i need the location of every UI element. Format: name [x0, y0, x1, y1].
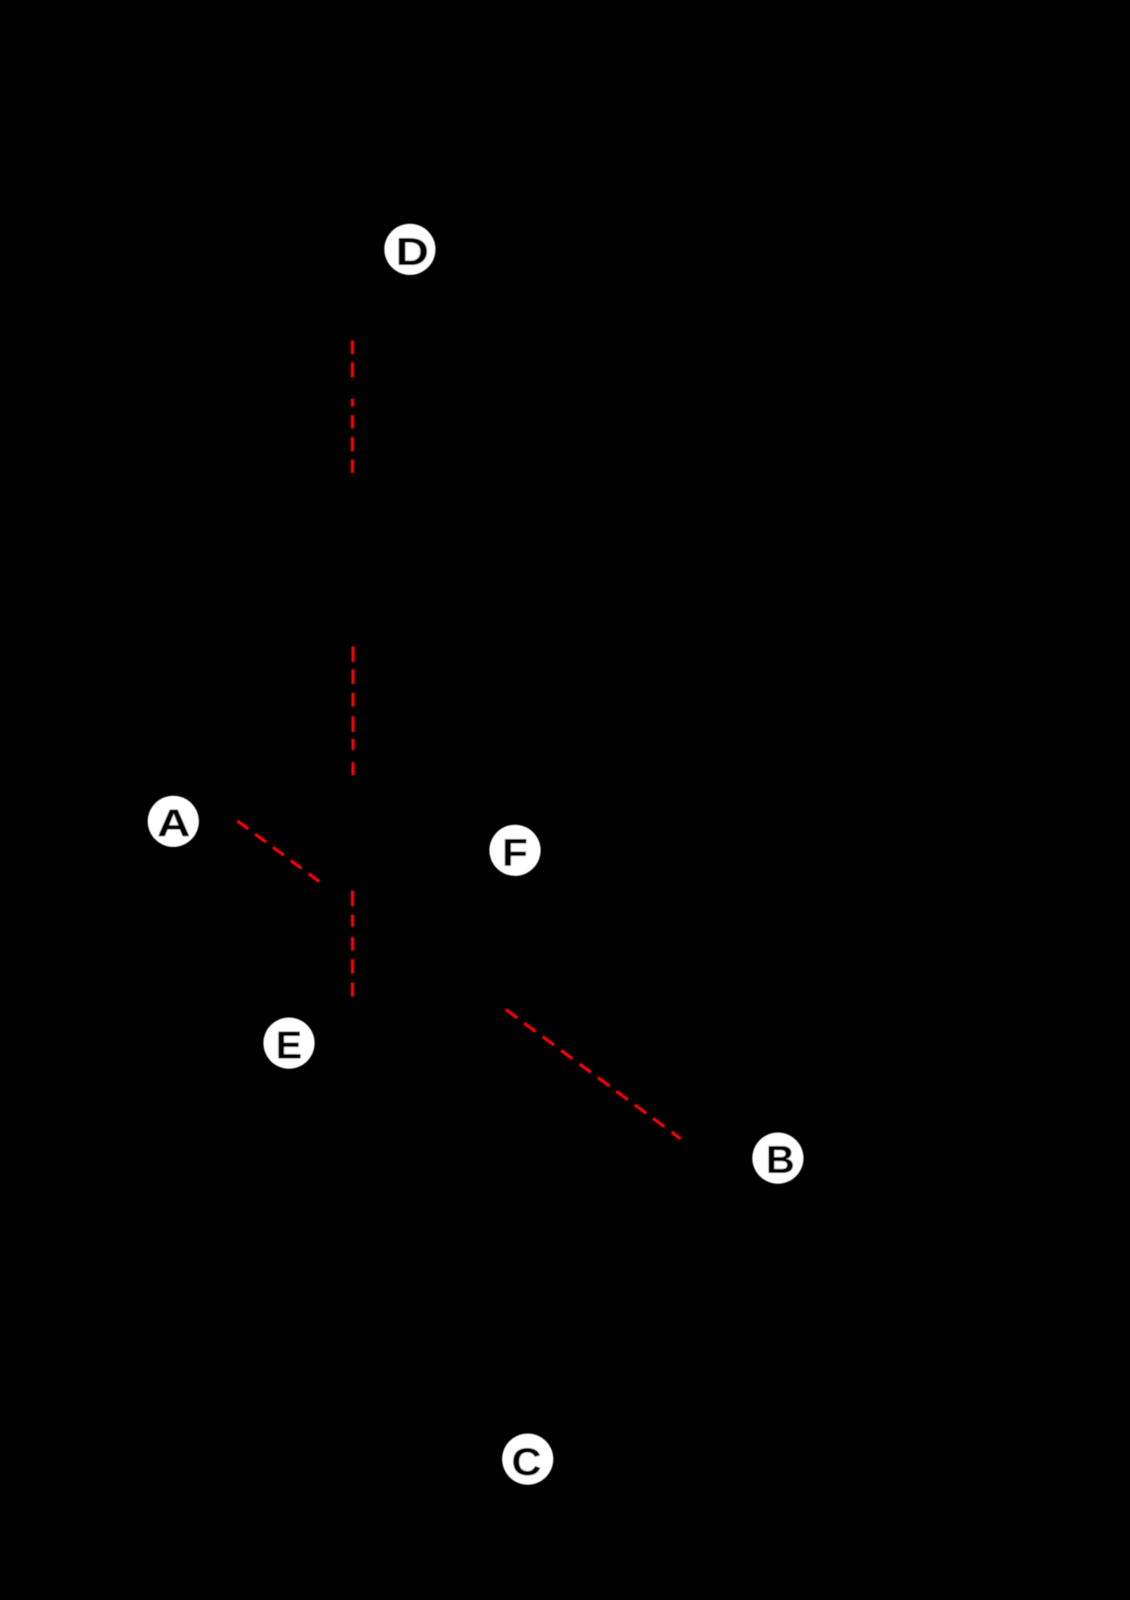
svg-text:F: F [502, 832, 528, 875]
node A [148, 796, 199, 847]
node E [263, 1018, 314, 1069]
node C [502, 1434, 553, 1485]
wire: red dashed diagonal from node A toward E [238, 821, 321, 882]
wire: red dashed vertical segment V2 (middle, x=353) [351, 647, 354, 776]
svg-text:E: E [276, 1025, 302, 1068]
node F [489, 825, 540, 876]
svg-text:C: C [512, 1441, 542, 1484]
wire: red dashed vertical segment V3 (lower, x=352.5) [351, 891, 354, 997]
wire: red dashed vertical segment V1 (upper, x=352.4) [351, 341, 354, 474]
wire: red dashed diagonal from F region toward node B [506, 1010, 681, 1139]
svg-text:B: B [766, 1139, 795, 1182]
node D [384, 224, 435, 275]
svg-text:A: A [157, 802, 191, 845]
node B [752, 1133, 803, 1184]
svg-text:D: D [396, 231, 429, 274]
